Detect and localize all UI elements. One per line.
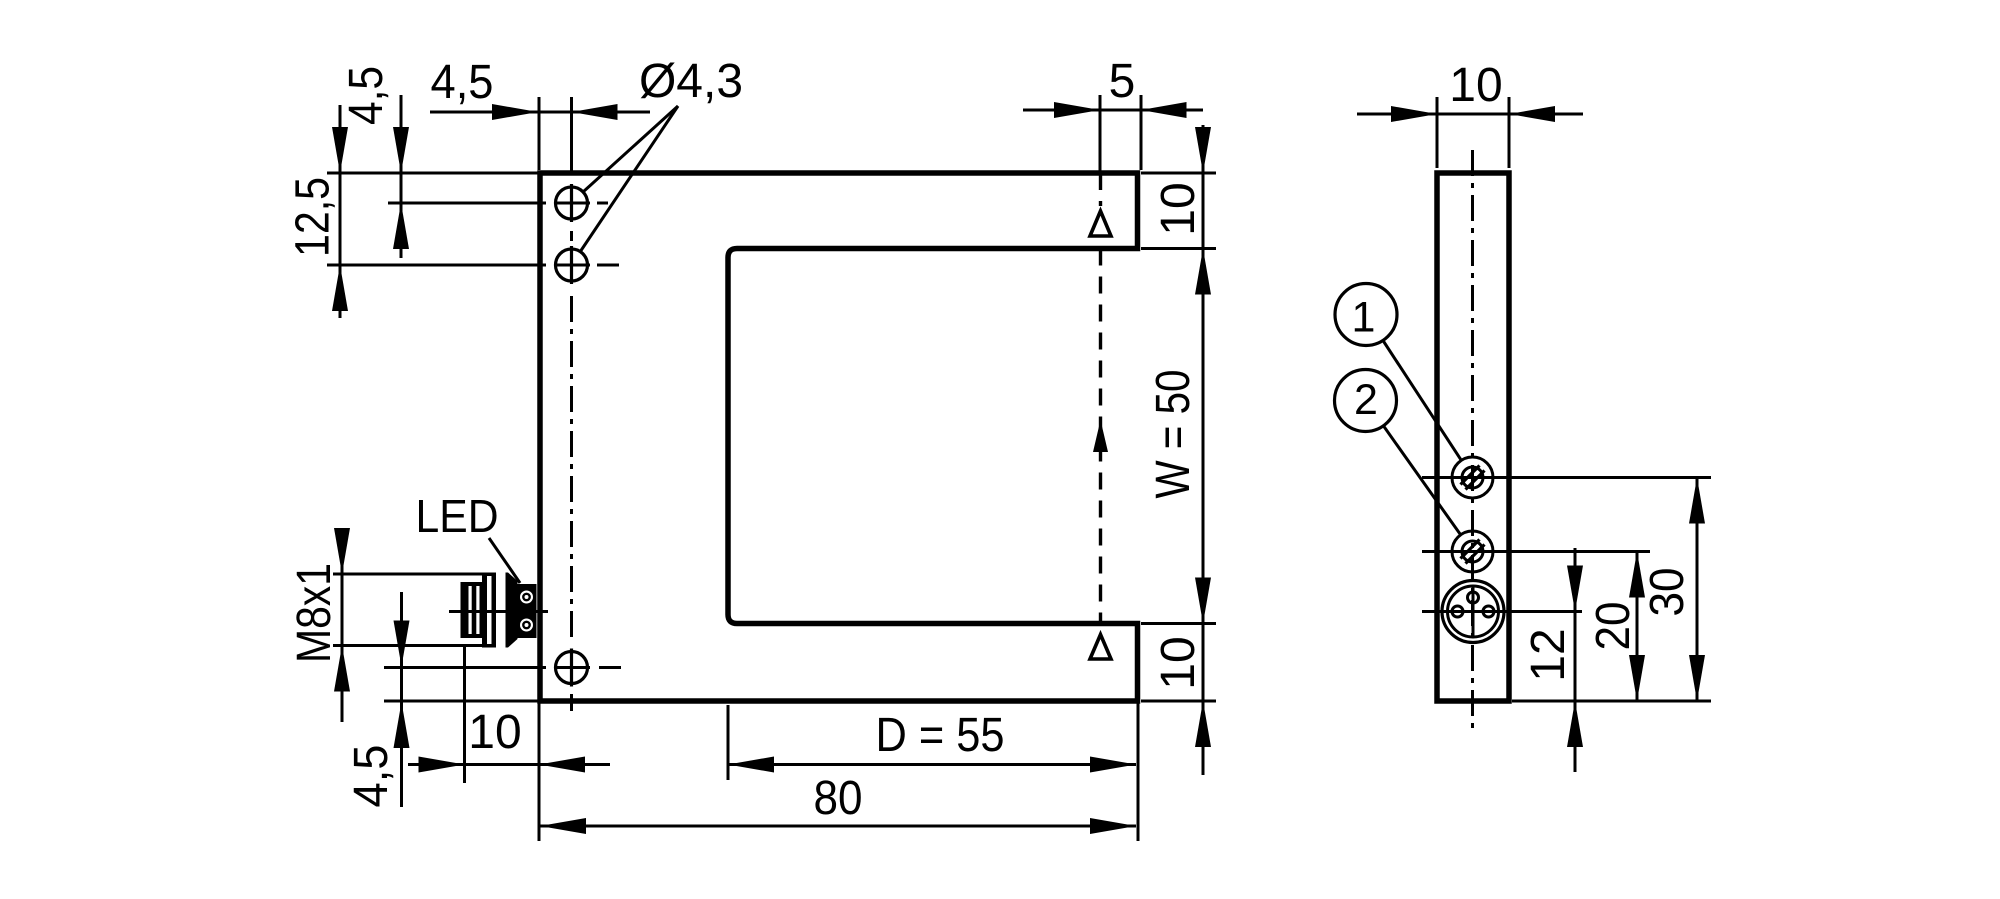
LED 1 (side view): [1452, 457, 1493, 498]
dimension 10 (side top): [1436, 97, 1439, 168]
hole centerline (vertical dash-dot): [570, 97, 573, 173]
bottom extension line (side view): [1512, 700, 1711, 703]
M8x1 dimension (left): [333, 573, 490, 576]
M8 connector face (side view): [1442, 581, 1504, 643]
dimension 5 (top right): [1099, 95, 1102, 173]
circled number 1: [1335, 284, 1397, 346]
triangle marker top arm: [1090, 211, 1111, 236]
top edge extension line (left): [327, 172, 538, 175]
svg-text:30: 30: [1641, 568, 1694, 617]
svg-text:12,5: 12,5: [287, 177, 340, 257]
dimension 4,5 horizontal (top): [430, 111, 650, 114]
sensor body outline (U-shape): [540, 173, 1138, 701]
svg-text:Ø4,3: Ø4,3: [639, 55, 743, 108]
dimension 12 (side): [1574, 548, 1577, 772]
optical axis arrow (up): [1093, 420, 1108, 452]
screw hole top (Ø4,3): [388, 184, 608, 222]
dimension D = 55: [727, 705, 730, 780]
connector axis line: [449, 610, 548, 613]
dimension 80: [540, 825, 1136, 828]
svg-text:LED: LED: [416, 490, 499, 542]
leader 1: [1383, 341, 1461, 461]
dimension 20 (side): [1636, 552, 1639, 702]
svg-text:D = 55: D = 55: [876, 709, 1005, 762]
svg-text:4,5: 4,5: [340, 66, 393, 125]
svg-text:10: 10: [1152, 182, 1205, 235]
dimension 10 (bottom left): [463, 646, 466, 783]
dimension 4,5 vertical (top left): [400, 95, 403, 258]
dimension 30 (side): [1696, 478, 1699, 702]
dimension 12,5 vertical (far left): [339, 105, 342, 318]
flange with LEDs: [518, 584, 537, 638]
side body outline: [1437, 173, 1509, 701]
svg-text:4,5: 4,5: [431, 56, 494, 109]
svg-text:1: 1: [1352, 294, 1376, 342]
screw hole middle (Ø4,3): [327, 246, 619, 284]
bottom edge extension line (left): [384, 700, 538, 703]
svg-text:M8x1: M8x1: [288, 563, 341, 663]
svg-text:80: 80: [814, 772, 863, 825]
LED 1 reference line: [1422, 476, 1711, 479]
right side extension lines of front view: [1141, 172, 1216, 175]
svg-text:20: 20: [1587, 602, 1640, 651]
leader 2: [1383, 426, 1460, 535]
LED 2 reference line: [1422, 550, 1650, 553]
M8 connector (front view, side profile): [449, 570, 548, 650]
svg-text:5: 5: [1109, 55, 1136, 108]
svg-text:W = 50: W = 50: [1147, 370, 1200, 499]
svg-text:4,5: 4,5: [345, 745, 398, 808]
svg-text:10: 10: [1152, 636, 1205, 689]
dimension 4,5 vertical (bottom left): [400, 592, 403, 807]
svg-text:12: 12: [1522, 628, 1575, 681]
circled number 2: [1335, 370, 1397, 432]
vertical dimension line right (10 / W=50 / 10): [1202, 125, 1205, 775]
threaded body: [482, 573, 518, 648]
svg-text:10: 10: [1449, 59, 1502, 112]
LED 2 (side view): [1452, 531, 1493, 572]
nut: [461, 582, 483, 638]
connector reference line: [1422, 610, 1582, 613]
triangle marker bottom arm: [1090, 635, 1111, 660]
svg-text:2: 2: [1354, 376, 1378, 424]
side centerline (vertical dash-dot): [1471, 150, 1474, 735]
screw hole bottom (Ø4,3): [384, 649, 621, 687]
optical axis dashed line: [1099, 173, 1102, 206]
svg-text:10: 10: [468, 706, 521, 759]
